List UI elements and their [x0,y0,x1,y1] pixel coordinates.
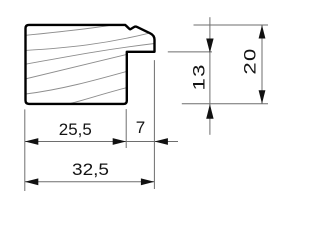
hatch line 6 [68,88,128,105]
extension line bottom right (y=103.3) [182,103,268,105]
arrow 25,5/7 shared right [113,138,127,145]
arrow 13 bottom (outside, pointing up) [206,104,213,119]
extension line middle (x=125.7) [125,109,127,148]
arrow 25,5 left [25,138,39,145]
arrow 20 bottom (pointing down) [259,90,266,104]
extension line right (x=153.9) [153,60,155,189]
dimension line 13 (x=209.4) [209,17,211,135]
hatch line 1 [26,25,113,35]
hatch line 3 [26,43,156,64]
hatch line 5 [26,71,128,94]
svg-text:13: 13 [190,63,209,90]
arrow 32,5 right [141,178,155,185]
extension line left (x=24.3) [24,109,26,191]
svg-text:25,5: 25,5 [59,120,92,139]
hatch line 4 [26,54,128,79]
svg-text:7: 7 [136,118,145,137]
arrow 7 right (outside) [154,138,168,145]
hatch line 2 [26,33,149,50]
extension line ledge level (y=51.4) [168,51,212,53]
dimension line 25,5 and 7 (y=141.0) [25,141,178,143]
arrow 20 top (pointing up) [259,25,266,39]
arrow 32,5 left [25,178,39,185]
profile outline [26,25,155,104]
extension line top right (y=24.45) [194,24,269,26]
dimension line 32,5 (y=181.3) [25,181,155,183]
svg-text:32,5: 32,5 [72,160,109,179]
svg-text:20: 20 [241,47,260,74]
hatching (wood grain) clipped to profile [26,25,156,104]
arrow 13 top (outside, pointing down) [206,39,213,53]
dimension line 20 (x=261.5) [261,25,263,104]
